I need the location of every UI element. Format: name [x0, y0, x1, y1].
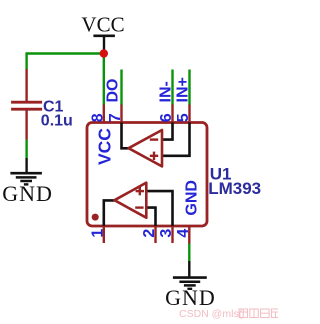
junction dot	[100, 49, 108, 57]
svg-text:GND: GND	[183, 180, 200, 216]
wire: pin 6 to op-amp A inverting input	[162, 123, 173, 140]
wire: pin 3 to op-amp B non-inverting input	[146, 191, 172, 226]
power port VCC stem	[103, 36, 105, 54]
svg-text:8: 8	[89, 113, 106, 122]
pin 6 stub	[171, 105, 173, 123]
svg-text:IN-: IN-	[158, 81, 175, 102]
pin 5 stub	[188, 105, 190, 123]
svg-text:4: 4	[175, 229, 192, 238]
pin 4 stub	[188, 226, 190, 244]
ground GND right bars	[173, 276, 207, 279]
power port VCC bar	[93, 34, 115, 37]
svg-text:IN+: IN+	[175, 77, 192, 102]
wire: VCC down to pin 8	[103, 54, 105, 106]
svg-text:2: 2	[141, 229, 158, 238]
wire: pin 2 to op-amp B inverting input	[146, 208, 155, 226]
capacitor C1 top lead	[25, 69, 27, 102]
svg-text:1: 1	[89, 229, 106, 238]
svg-text:GND: GND	[165, 285, 216, 310]
svg-text:VCC: VCC	[94, 128, 114, 165]
op-amp B minus mark	[135, 206, 143, 208]
wire: pin 5 to op-amp A non-inverting input	[162, 123, 190, 156]
pin 7 stub	[120, 105, 122, 123]
wire: pin 6 net IN-	[171, 70, 173, 106]
pin 1 marker dot	[92, 214, 99, 221]
svg-text:0.1u: 0.1u	[41, 113, 73, 130]
svg-text:3: 3	[158, 229, 175, 238]
capacitor C1 bottom lead	[25, 109, 27, 139]
wire: pin 7 net DO	[120, 70, 122, 106]
op-amp A plus mark	[150, 155, 158, 157]
ground GND right stem	[188, 261, 190, 277]
ground GND left bars	[10, 172, 42, 175]
svg-text:GND: GND	[2, 181, 53, 206]
svg-text:7: 7	[107, 113, 124, 122]
op-amp B triangle (bottom)	[115, 183, 147, 218]
pin 1 stub	[103, 226, 105, 243]
pin 2 stub	[154, 226, 156, 243]
svg-text:CSDN @mls(: CSDN @mls(	[179, 308, 243, 320]
wire: C1 to left GND	[25, 140, 27, 159]
op-amp A minus mark	[150, 138, 158, 140]
wire: pin 4 to GND	[188, 244, 190, 262]
wire: down to C1	[25, 52, 27, 69]
svg-text:5: 5	[175, 113, 192, 122]
ground GND left stem	[25, 158, 27, 173]
pin 3 stub	[171, 226, 173, 243]
op-amp A triangle (top)	[129, 130, 162, 166]
svg-text:LM393: LM393	[208, 179, 261, 198]
IC U1 LM393 body	[87, 123, 207, 227]
svg-text:DO: DO	[105, 79, 122, 103]
wire: op-amp B output to pin 1	[104, 200, 115, 226]
watermark CSDN @mls(写代码版	[179, 308, 280, 320]
svg-text:6: 6	[158, 113, 175, 122]
wire: VCC rail horizontal to C1	[27, 52, 104, 54]
op-amp B plus mark	[136, 190, 144, 192]
capacitor C1 plates	[11, 101, 42, 104]
wire: op-amp A output to pin 7	[122, 123, 130, 149]
pin 8 stub	[103, 105, 105, 123]
wire: pin 5 net IN+	[188, 70, 190, 106]
svg-text:VCC: VCC	[81, 13, 124, 37]
